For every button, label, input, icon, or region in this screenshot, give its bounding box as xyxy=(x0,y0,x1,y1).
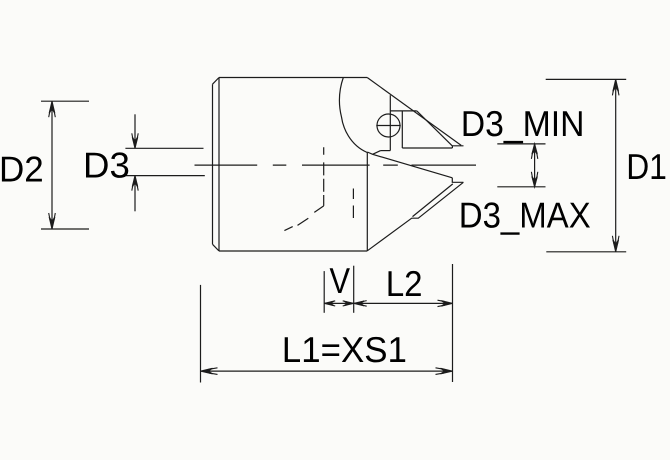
screw cross line xyxy=(376,125,400,127)
label D1 xyxy=(629,154,665,179)
dim V-L2 line xyxy=(324,302,452,304)
body top edge xyxy=(219,77,367,79)
center line xyxy=(195,164,477,166)
dim D3MIN/MAX line top xyxy=(497,143,545,145)
arrow L1 left xyxy=(201,368,213,374)
insert vertical B xyxy=(401,111,403,148)
lower point tip top xyxy=(452,178,463,183)
dim V ext right xyxy=(353,266,355,313)
arrow V left xyxy=(324,301,334,305)
hidden pocket diagonal dashed xyxy=(284,206,323,231)
insert shelf top xyxy=(390,110,417,112)
hidden pocket vertical dashed xyxy=(323,147,325,206)
dim D1 line top xyxy=(546,78,627,80)
body left outer vertical xyxy=(212,84,214,244)
hidden vertical dashed 2 xyxy=(352,189,354,219)
flute arc xyxy=(339,78,367,153)
dim V ext left xyxy=(323,271,325,313)
insert left shelf xyxy=(381,150,391,152)
arrow D3 bottom xyxy=(132,176,137,187)
dim D1 line bottom xyxy=(546,251,626,253)
arrow L1 right xyxy=(441,368,453,374)
dim right ext shared xyxy=(452,264,454,382)
dim D3 line bottom xyxy=(125,175,204,177)
dim D3MIN/MAX line bottom xyxy=(497,186,545,188)
dim L1 ext left xyxy=(200,285,202,383)
arrow V right xyxy=(344,301,354,305)
body right edge xyxy=(366,152,368,251)
label D3_MAX xyxy=(462,202,591,234)
screw circle xyxy=(377,114,400,137)
arrow D2 bottom xyxy=(49,217,55,229)
arrow D2 top xyxy=(49,101,55,113)
label L2 xyxy=(389,271,421,296)
upper point tip bottom xyxy=(452,146,463,148)
insert vertical A xyxy=(389,95,391,150)
label D2 xyxy=(2,156,42,181)
arrow D1 top xyxy=(613,79,619,91)
arrow D1 bottom xyxy=(613,240,619,252)
dim D2 tick bottom xyxy=(41,228,89,230)
lower point bottom edge xyxy=(367,182,463,251)
body left inner vertical xyxy=(218,78,220,252)
label V xyxy=(330,268,350,293)
dim D3 arrow leader bottom xyxy=(134,176,136,212)
insert left diagonal xyxy=(373,151,381,155)
label D3 xyxy=(86,152,128,178)
arrow D3MAX bottom xyxy=(532,176,537,186)
arrow L2 left xyxy=(354,301,364,306)
upper point inner diagonal xyxy=(417,111,452,146)
dim D3 arrow leader top xyxy=(134,114,136,148)
arrow D3 top xyxy=(132,137,137,148)
body chamfer top-left xyxy=(213,78,220,85)
dim D1 vline xyxy=(615,79,617,251)
arrow D3MIN top xyxy=(532,144,537,154)
arrow L2 right xyxy=(441,301,452,306)
dim D3 line top xyxy=(125,147,203,149)
lower point top edge xyxy=(367,152,452,178)
upper point bottom shelf xyxy=(402,147,452,149)
lower point inner sliver xyxy=(413,184,453,217)
dim L1 line xyxy=(201,370,453,372)
upper point outer diagonal xyxy=(367,78,461,146)
label L1=XS1 xyxy=(285,337,406,363)
body bottom edge xyxy=(219,250,367,252)
dim D2 line xyxy=(51,101,53,229)
label D3_MIN xyxy=(464,111,582,143)
dim D3MIN/MAX vline xyxy=(534,144,536,187)
dim D2 tick top xyxy=(41,100,89,102)
body chamfer bottom-left xyxy=(213,244,220,251)
